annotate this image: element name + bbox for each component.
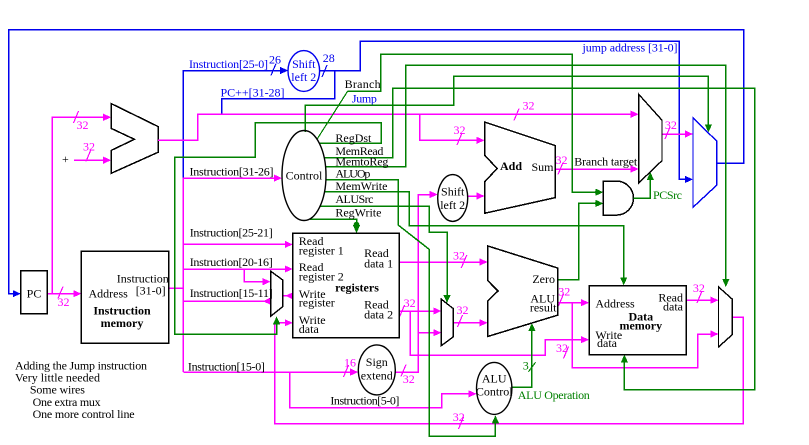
svg-text:Control: Control — [286, 169, 323, 183]
svg-text:16: 16 — [344, 356, 356, 370]
note line 1 — [15, 359, 147, 373]
svg-text:32: 32 — [404, 296, 416, 310]
registers — [293, 233, 399, 338]
MemtoReg mux — [719, 287, 733, 347]
svg-text:memory: memory — [101, 316, 144, 330]
instruction bus vertical — [182, 178, 184, 373]
svg-text:32: 32 — [453, 249, 465, 263]
svg-text:Shift: Shift — [441, 185, 465, 199]
wire write-register mux output to registers — [283, 292, 294, 299]
label Instruction[25-21] — [190, 226, 273, 240]
svg-text:Address: Address — [89, 287, 129, 301]
label Instruction[15-0] — [188, 359, 265, 373]
wire read data 2 tap to data memory write data — [410, 311, 589, 359]
svg-text:Shift: Shift — [292, 57, 316, 71]
svg-text:Branch: Branch — [345, 77, 381, 91]
label MemRead — [335, 144, 383, 158]
wire Instruction[15-11] to write-register mux — [183, 298, 270, 305]
label 26 with slash — [269, 53, 281, 76]
svg-text:32: 32 — [558, 285, 570, 299]
svg-text:Sign: Sign — [366, 355, 388, 369]
write-register mux — [271, 271, 283, 316]
svg-text:left 2: left 2 — [440, 198, 465, 212]
AND gate (branch) — [603, 181, 633, 215]
svg-text:One more control line: One more control line — [33, 407, 135, 421]
svg-text:registers: registers — [335, 281, 379, 295]
jump mux (new, blue) — [693, 118, 717, 208]
branch adder Add — [485, 122, 556, 213]
svg-text:Control: Control — [476, 385, 513, 399]
wire Zero from ALU to AND gate — [558, 200, 603, 280]
wire PCSrc from AND gate to PCSrc mux — [634, 172, 654, 198]
svg-text:Add: Add — [500, 159, 522, 173]
note line 5 — [33, 407, 135, 421]
svg-text:Instruction[15-0]: Instruction[15-0] — [188, 359, 265, 373]
wire MemWrite from control to data memory — [325, 192, 628, 286]
wire Instruction[15-0] to sign extend — [183, 356, 358, 378]
wire Instruction[20-16] to read register 2 and mux — [183, 265, 292, 285]
label MemtoReg — [335, 154, 388, 168]
svg-text:32: 32 — [453, 410, 465, 424]
adder PC+4 — [111, 104, 158, 174]
wire jump address from shift-left-2 to jump mux — [320, 41, 693, 183]
wire shift-left-2 output to branch adder — [468, 192, 485, 199]
svg-text:PCSrc: PCSrc — [653, 188, 682, 202]
svg-text:extend: extend — [361, 369, 393, 383]
svg-text:jump address [31-0]: jump address [31-0] — [582, 41, 678, 55]
svg-text:data: data — [597, 336, 618, 350]
svg-text:32: 32 — [693, 281, 705, 295]
svg-text:ALUSrc: ALUSrc — [335, 192, 373, 206]
svg-text:32: 32 — [77, 118, 89, 132]
label jump address [31-0] — [582, 41, 678, 55]
svg-text:Address: Address — [595, 297, 635, 311]
svg-text:register: register — [299, 296, 335, 310]
wire PC+4 bus from adder to PCSrc mux — [158, 99, 639, 141]
wire PC to instruction memory address — [47, 287, 81, 310]
wire branch adder Sum to PCSrc mux (branch target) — [555, 153, 638, 175]
svg-text:Branch target: Branch target — [574, 155, 638, 169]
svg-text:32: 32 — [523, 99, 535, 113]
ALUSrc mux — [441, 299, 453, 345]
svg-text:data 2: data 2 — [364, 308, 393, 322]
control unit — [282, 131, 326, 221]
wire MemtoReg mux output back to registers write data — [275, 317, 743, 429]
label MemWrite — [335, 179, 387, 193]
svg-text:[31-0]: [31-0] — [136, 284, 166, 298]
svg-text:Instruction[25-21]: Instruction[25-21] — [190, 226, 273, 240]
svg-text:32: 32 — [556, 153, 568, 167]
PC register — [21, 271, 47, 314]
label PCSrc — [653, 188, 682, 202]
wire ALU result to data memory address — [558, 285, 589, 307]
label Branch — [345, 77, 381, 91]
ALU control — [476, 362, 513, 414]
svg-text:Instruction[5-0]: Instruction[5-0] — [330, 394, 399, 408]
wire ALU result tap to MemtoReg mux — [572, 303, 718, 368]
label Branch target — [574, 155, 638, 169]
wire ALUSrc from control to ALUSrc mux — [320, 206, 451, 303]
svg-text:32: 32 — [403, 372, 415, 386]
svg-text:32: 32 — [58, 295, 70, 309]
svg-text:RegDst: RegDst — [335, 131, 372, 145]
wire Branch from control to AND gate — [317, 54, 603, 196]
svg-text:3: 3 — [523, 359, 529, 373]
svg-text:PC: PC — [27, 287, 42, 301]
wire ALUSrc mux output to ALU — [453, 303, 487, 327]
wire MemRead from control to data memory — [324, 88, 754, 389]
wire PC+4 tap up to adder input 1 — [52, 111, 111, 294]
svg-text:28: 28 — [323, 51, 335, 65]
svg-text:32: 32 — [83, 140, 95, 154]
svg-text:+: + — [62, 152, 69, 166]
wire Instruction[5-0] to ALU control — [290, 372, 477, 408]
label ALUOp — [335, 167, 370, 181]
shift left 2 (branch) — [438, 175, 468, 222]
wire PC+4 tap down to branch adder input — [420, 114, 485, 145]
label PC++[31-28] — [221, 86, 285, 100]
svg-text:ALU: ALU — [482, 372, 507, 386]
svg-text:data: data — [299, 322, 320, 336]
wire Jump from control to jump mux select — [305, 76, 712, 132]
label Jump (blue) — [352, 92, 377, 106]
label Instruction[5-0] — [330, 394, 399, 408]
wire sign extend output up to shift-left-2 — [395, 191, 438, 386]
svg-text:register 1: register 1 — [299, 244, 344, 258]
wire Instruction[31-26] to Control — [183, 175, 282, 182]
data memory — [589, 286, 686, 355]
label Instruction[31-26] — [190, 165, 274, 179]
wire data memory read data to MemtoReg mux — [686, 281, 719, 304]
svg-text:32: 32 — [556, 341, 568, 355]
svg-text:ALU Operation: ALU Operation — [518, 388, 590, 402]
wire read data 2 to ALUSrc mux — [399, 296, 441, 317]
label ALU Operation — [518, 388, 590, 402]
svg-text:left 2: left 2 — [291, 70, 316, 84]
wire RegDst from control to write-register mux — [175, 123, 382, 335]
wire PCSrc mux output to jump mux — [662, 118, 693, 139]
svg-text:memory: memory — [619, 319, 662, 333]
svg-text:RegWrite: RegWrite — [335, 205, 381, 219]
wire sign extend branch to ALUSrc mux input 2 — [418, 329, 441, 336]
svg-text:data 1: data 1 — [364, 257, 393, 271]
svg-text:26: 26 — [269, 53, 281, 67]
wire ALU operation from ALU control to ALU — [512, 323, 536, 387]
svg-text:32: 32 — [665, 118, 677, 132]
wire constant 4 into adder input 2 — [62, 140, 111, 167]
svg-text:data: data — [663, 300, 684, 314]
svg-text:Instruction[20-16]: Instruction[20-16] — [190, 255, 273, 269]
note line 2 — [15, 371, 100, 385]
note line 4 — [33, 395, 101, 409]
wire instruction memory output to bus — [169, 287, 184, 289]
wire ALUOp from control to ALU control — [326, 180, 499, 436]
wire Instruction[25-21] to read register 1 — [183, 241, 292, 248]
shift left 2 (jump) U-sl2j — [288, 51, 320, 92]
svg-text:32: 32 — [457, 303, 469, 317]
PCSrc mux — [639, 94, 662, 183]
wire jump-mux output to PC (blue feedback around border) — [9, 30, 744, 298]
note line 3 — [30, 383, 85, 397]
sign extend — [358, 345, 395, 395]
svg-text:Zero: Zero — [532, 272, 555, 286]
wire RegWrite from control to registers — [310, 219, 360, 233]
wire Instruction[25-0] from instruction bus up to shift-left-2 — [183, 67, 288, 178]
svg-text:Jump: Jump — [352, 92, 377, 106]
svg-text:Instruction[25-0]: Instruction[25-0] — [189, 57, 268, 71]
wire MemtoReg from control to MemtoReg mux — [326, 65, 730, 287]
label Instruction[15-11] — [190, 286, 273, 300]
svg-text:32: 32 — [454, 123, 466, 137]
label Instruction[25-0] — [189, 57, 268, 71]
label Instruction[20-16] — [190, 255, 273, 269]
wire read data 1 to ALU — [399, 249, 488, 269]
svg-text:PC++[31-28]: PC++[31-28] — [221, 86, 285, 100]
label 28 with slash — [322, 51, 335, 77]
label RegDst — [335, 131, 372, 145]
label RegWrite — [335, 205, 381, 219]
instruction memory — [81, 251, 168, 343]
main ALU — [488, 246, 558, 337]
label ALUSrc — [335, 192, 373, 206]
svg-text:Instruction[31-26]: Instruction[31-26] — [190, 165, 274, 179]
svg-text:Sum: Sum — [531, 160, 554, 174]
wire PC+4[31-28] tap joining jump address — [222, 71, 335, 115]
svg-text:result: result — [530, 301, 557, 315]
svg-text:Instruction[15-11]: Instruction[15-11] — [190, 286, 273, 300]
